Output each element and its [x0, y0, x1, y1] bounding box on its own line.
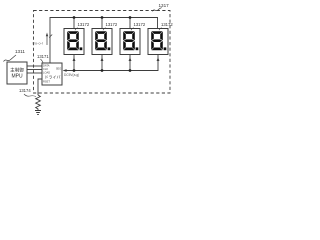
tick on supply wire — [49, 35, 52, 38]
display U2 box — [92, 29, 112, 55]
svg-text:13172: 13172 — [78, 22, 90, 27]
dashed enclosure box 1317 — [34, 11, 171, 94]
svg-text:13172: 13172 — [134, 22, 146, 27]
svg-text:CLK: CLK — [43, 67, 48, 71]
wire mpu-driver 3 — [27, 72, 42, 74]
svg-text:13171: 13171 — [37, 54, 49, 59]
leader 13172 d3 — [131, 28, 134, 30]
arrowhead d3 — [129, 57, 132, 61]
wire segment bus bottom — [64, 55, 159, 71]
display U1 decimal point — [80, 47, 83, 50]
svg-text:13172: 13172 — [106, 22, 118, 27]
arrowhead into driver — [63, 69, 67, 72]
leader 13172 d4 — [159, 28, 162, 30]
leader 13171 — [41, 59, 44, 63]
node junction dot d2 — [101, 16, 104, 19]
leader 13172 d1 — [75, 28, 78, 30]
leader 1311 — [4, 55, 17, 62]
arrowhead d2 — [101, 57, 104, 61]
svg-text:13172: 13172 — [161, 22, 173, 27]
wire display3 cathode lead — [129, 55, 131, 71]
display U1 box — [64, 29, 84, 55]
svg-text:ドライバ: ドライバ — [45, 74, 61, 80]
svg-text:主制御: 主制御 — [10, 67, 24, 74]
svg-text:Iro-o-l: Iro-o-l — [33, 42, 43, 46]
display U2 digit 8 — [95, 31, 107, 50]
wire display2 anode lead — [101, 18, 103, 29]
wire display3 anode lead — [129, 18, 131, 29]
svg-text:DATA: DATA — [43, 64, 50, 68]
display U1 digit 8 — [67, 31, 79, 50]
wire display1 cathode lead — [73, 55, 75, 71]
wire top supply bus — [50, 18, 158, 64]
wire display2 cathode lead — [101, 55, 103, 71]
ground — [35, 111, 41, 115]
display U3 decimal point — [136, 47, 139, 50]
display U4 decimal point — [164, 47, 167, 50]
wire driver to resistor — [38, 79, 42, 95]
arrowhead d4 — [157, 57, 160, 61]
resistor 13174 — [36, 95, 41, 111]
node dot bus d3 — [129, 69, 132, 72]
wire mpu-driver 1 — [27, 65, 42, 67]
display U3 digit 8 — [123, 31, 135, 50]
svg-text:DC5V(a-g): DC5V(a-g) — [64, 73, 79, 77]
leader 13174 — [24, 94, 36, 97]
display U2 decimal point — [108, 47, 111, 50]
node junction dot d3 — [129, 16, 132, 19]
node junction dot d1 — [73, 16, 76, 19]
wire display1 anode lead — [73, 18, 75, 29]
wire mpu-driver 2 — [27, 69, 42, 71]
arrowhead d1 — [73, 57, 76, 61]
display U4 box — [148, 29, 168, 55]
node dot bus d2 — [101, 69, 104, 72]
display U3 box — [120, 29, 140, 55]
svg-text:13174: 13174 — [19, 88, 31, 93]
leader 13172 d2 — [103, 28, 106, 30]
svg-text:MPU: MPU — [11, 74, 23, 80]
driver IC 13171 box — [42, 63, 62, 85]
current annotation arrow — [33, 33, 49, 46]
svg-text:RSET: RSET — [43, 80, 50, 84]
MPU box 1311 — [7, 62, 27, 84]
svg-text:1311: 1311 — [15, 49, 25, 54]
node dot bus d1 — [73, 69, 76, 72]
leader 1317 — [153, 8, 162, 12]
svg-text:SEG: SEG — [56, 66, 61, 70]
display U4 digit 8 — [151, 31, 163, 50]
svg-text:1317: 1317 — [159, 3, 170, 8]
